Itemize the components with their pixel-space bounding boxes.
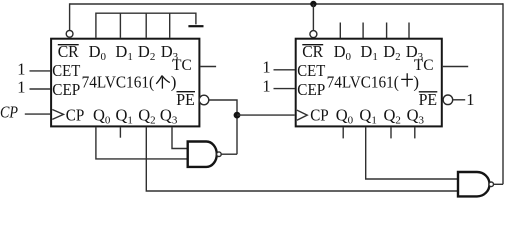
svg-text:1: 1 [17, 59, 25, 78]
svg-text:74LVC161(: 74LVC161( [327, 72, 399, 91]
U2 CR pin label with overline [302, 42, 323, 61]
svg-text:1: 1 [17, 78, 25, 97]
U2 D0 stub wire [339, 23, 341, 39]
wire right edge vertical [502, 3, 504, 184]
wire U2 Q0 stub [342, 127, 344, 138]
wire G1 output to junction riser [221, 153, 237, 155]
svg-text:D2: D2 [383, 42, 400, 63]
wire U2 CR riser [312, 4, 314, 31]
bubble U2 CR active-low [310, 31, 317, 38]
ground [188, 25, 203, 27]
svg-text:Q0: Q0 [336, 105, 354, 126]
svg-text:1: 1 [262, 77, 270, 96]
svg-text:CP: CP [0, 103, 18, 122]
svg-text:D0: D0 [89, 42, 107, 63]
wire CP input [25, 113, 51, 115]
U1 TC stub wire [200, 66, 216, 68]
U2 PE pin label with overline [419, 90, 438, 109]
svg-text:Q0: Q0 [93, 105, 111, 126]
svg-text:PE: PE [176, 90, 195, 109]
U1 CR pin label with overline [58, 42, 79, 61]
NAND gate G2 body [458, 172, 490, 196]
svg-text:1: 1 [466, 90, 474, 109]
svg-text:D1: D1 [115, 42, 132, 63]
U1 pin CEP wire [30, 88, 51, 90]
U2 D3 stub wire [408, 23, 410, 39]
node PE/NAND junction [234, 112, 241, 119]
svg-text:CEP: CEP [297, 80, 325, 99]
svg-text:D2: D2 [138, 42, 155, 63]
svg-text:CET: CET [297, 61, 325, 80]
svg-text:CP: CP [66, 105, 85, 124]
U2 D1 stub wire [362, 23, 364, 39]
wire U1 Q0 to G1 input [96, 127, 188, 159]
wire junction to U2 CP [237, 114, 295, 116]
wire top reset net horizontal [70, 3, 503, 5]
U2 part label 74LVC161 [327, 72, 419, 91]
U2 clock triangle [297, 110, 307, 120]
wire G2 output to right edge [494, 183, 504, 185]
wire U1 D0-D3 preset bus [96, 13, 196, 38]
wire U1 Q3 to G1 input [172, 127, 188, 148]
bubble G2 output [489, 182, 494, 187]
bubble U2 PE active-low [443, 95, 453, 105]
U1 clock triangle [52, 110, 63, 120]
wire U1 PE to junction [209, 100, 237, 154]
U2 D2 stub wire [386, 23, 388, 39]
counter U2 74LVC161 (tens digit) body [296, 39, 442, 127]
U2 TC stub wire [443, 66, 468, 68]
svg-text:Q2: Q2 [138, 105, 155, 126]
svg-text:D0: D0 [334, 42, 352, 63]
svg-text:Q1: Q1 [359, 105, 376, 126]
svg-text:CP: CP [310, 105, 329, 124]
svg-text:Q3: Q3 [160, 105, 178, 126]
svg-text:CEP: CEP [52, 80, 80, 99]
svg-text:D1: D1 [360, 42, 377, 63]
wire U2 Q3 stub [414, 127, 416, 138]
U2 pin CET wire [274, 69, 296, 71]
NAND gate G1 body [188, 142, 217, 167]
svg-text:Q1: Q1 [116, 105, 133, 126]
bubble U1 CR active-low [66, 30, 73, 37]
wire U1 Q2 to G2 input (bottom run) [146, 127, 458, 191]
node top junction [310, 1, 316, 7]
svg-text:): ) [413, 72, 419, 91]
wire U1 Q1 stub [119, 127, 121, 137]
svg-text:PE: PE [419, 90, 438, 109]
svg-text:74LVC161(: 74LVC161( [82, 72, 155, 91]
bubble G1 output [217, 152, 222, 157]
wire U1 CR riser [69, 3, 71, 30]
svg-text:): ) [171, 72, 177, 91]
svg-text:Q2: Q2 [384, 105, 401, 126]
U1 PE pin label with overline [176, 90, 195, 109]
U2 pin CEP wire [274, 88, 296, 90]
svg-text:CET: CET [52, 61, 80, 80]
bubble U1 PE active-low [199, 95, 209, 105]
U1 pin CET wire [30, 70, 51, 72]
wire U2 PE to logic-1 [453, 99, 466, 101]
U1 part label 74LVC161 [82, 72, 177, 91]
wire U2 Q2 stub [390, 127, 392, 138]
wire U2 Q1 to G2 input [366, 127, 458, 179]
counter U1 74LVC161 (units digit) body [51, 39, 199, 127]
svg-text:1: 1 [262, 58, 270, 77]
